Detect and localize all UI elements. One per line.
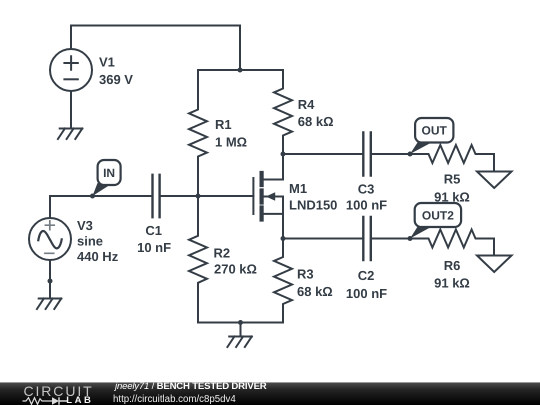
wire bottom rail xyxy=(198,322,283,324)
label R1 xyxy=(215,117,247,150)
label C2 xyxy=(346,268,387,301)
svg-text:R3: R3 xyxy=(297,267,314,282)
svg-text:91 kΩ: 91 kΩ xyxy=(434,275,470,290)
wire R5 to ground xyxy=(493,154,495,172)
svg-text:R1: R1 xyxy=(215,117,232,132)
resistor R2 xyxy=(189,196,207,323)
svg-text:C2: C2 xyxy=(358,268,375,283)
ground below V1 xyxy=(58,129,82,140)
flag IN xyxy=(93,160,121,196)
svg-text:100 nF: 100 nF xyxy=(346,197,387,212)
wire V1 to ground xyxy=(70,91,72,129)
resistor R6 xyxy=(410,230,494,248)
voltage source V3 xyxy=(29,218,71,260)
svg-text:IN: IN xyxy=(103,166,115,180)
flag OUT2 xyxy=(410,203,461,239)
wire top rail from V1 to supply corner xyxy=(71,26,240,71)
svg-text:V3: V3 xyxy=(77,218,93,233)
node drain junction xyxy=(281,152,286,157)
svg-text:OUT: OUT xyxy=(422,124,448,138)
wire C2 to OUT2 node xyxy=(371,238,410,240)
label M1 xyxy=(289,181,337,212)
node V3 ground junction xyxy=(48,279,53,284)
label R6 xyxy=(434,258,470,291)
logo CIRCUIT xyxy=(24,384,94,398)
capacitor C1 xyxy=(153,175,160,217)
node IN junction xyxy=(90,194,95,199)
node supply junction xyxy=(238,68,243,73)
ground bottom middle xyxy=(227,337,251,348)
node gate junction xyxy=(196,194,201,199)
svg-text:M1: M1 xyxy=(289,181,307,196)
footer url line xyxy=(113,395,236,405)
svg-text:OUT2: OUT2 xyxy=(422,208,454,222)
logo LAB xyxy=(66,396,93,405)
resistor R5 xyxy=(410,145,494,163)
svg-text:R4: R4 xyxy=(298,97,315,112)
svg-text:91 kΩ: 91 kΩ xyxy=(434,190,470,205)
svg-text:sine: sine xyxy=(77,234,103,249)
svg-text:10 nF: 10 nF xyxy=(137,240,171,255)
node source junction xyxy=(281,236,286,241)
label R3 xyxy=(297,267,333,300)
ground triangle for R6 xyxy=(477,256,512,273)
svg-text:68 kΩ: 68 kΩ xyxy=(297,284,333,299)
label C1 xyxy=(137,223,171,255)
ground triangle for R5 xyxy=(477,172,512,189)
svg-text:V1: V1 xyxy=(99,55,115,70)
transistor M1 (MOSFET LND150) xyxy=(253,154,283,239)
footer title line xyxy=(115,382,267,392)
label C3 xyxy=(346,182,387,213)
label R2 xyxy=(214,245,257,276)
resistor R3 xyxy=(274,239,292,323)
wire C3 to OUT node xyxy=(371,153,410,155)
svg-text:R6: R6 xyxy=(444,258,461,273)
capacitor C3 xyxy=(363,133,371,176)
resistor R1 xyxy=(189,70,207,196)
wire V3 top to input row xyxy=(50,196,152,218)
svg-text:270 kΩ: 270 kΩ xyxy=(214,262,257,277)
wire C1 to gate node xyxy=(160,195,254,197)
node OUT junction xyxy=(408,152,413,157)
svg-text:440 Hz: 440 Hz xyxy=(77,249,119,264)
svg-text:68 kΩ: 68 kΩ xyxy=(298,114,334,129)
footer bar xyxy=(0,382,540,405)
svg-text:369 V: 369 V xyxy=(99,72,133,87)
svg-text:R2: R2 xyxy=(214,245,231,260)
svg-text:1 MΩ: 1 MΩ xyxy=(215,135,247,150)
wire R6 to ground xyxy=(493,239,495,256)
wire supply rail horizontal xyxy=(198,69,283,71)
label R5 xyxy=(434,172,470,205)
wire drain node to C3 xyxy=(283,153,363,155)
label V1 xyxy=(99,55,133,88)
svg-text:100 nF: 100 nF xyxy=(346,286,387,301)
resistor R4 xyxy=(274,70,292,154)
flag OUT xyxy=(410,118,453,154)
svg-text:C3: C3 xyxy=(358,182,375,197)
ground below V3 xyxy=(37,299,61,310)
logo resistor-diode glyph xyxy=(22,396,68,405)
capacitor C2 xyxy=(363,217,371,260)
node OUT2 junction xyxy=(408,236,413,241)
svg-text:LND150: LND150 xyxy=(289,197,337,212)
svg-text:C1: C1 xyxy=(145,223,162,238)
svg-text:R5: R5 xyxy=(444,172,461,187)
wire bottom ground stem xyxy=(240,323,242,337)
wire source node to C2 xyxy=(283,238,363,240)
label V3 xyxy=(77,218,119,264)
wire V3 to ground xyxy=(49,260,51,299)
label R4 xyxy=(298,97,334,129)
voltage source V1 xyxy=(50,49,92,91)
node bottom ground junction xyxy=(238,320,243,325)
